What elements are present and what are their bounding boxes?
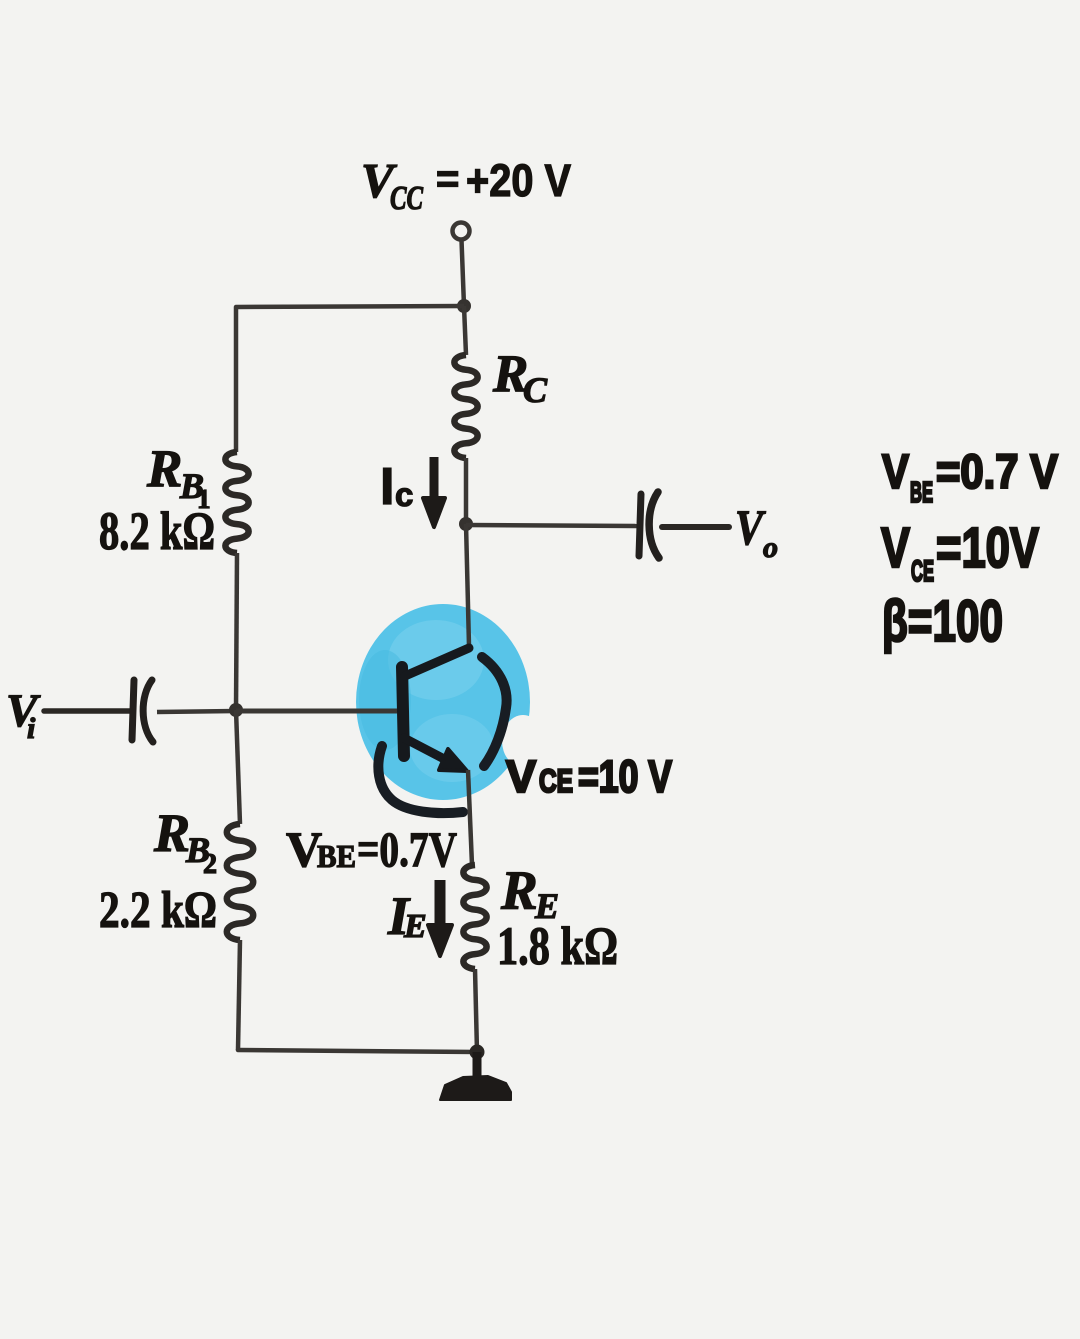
capacitor Co output coupling bbox=[639, 492, 659, 558]
annotation arc right of transistor bbox=[482, 657, 507, 766]
svg-text:=0.7V: =0.7V bbox=[357, 821, 457, 877]
svg-text:8.2 kΩ: 8.2 kΩ bbox=[99, 501, 215, 561]
label RC bbox=[492, 345, 548, 410]
wire base node to transistor base bbox=[236, 709, 397, 714]
svg-text:V: V bbox=[6, 685, 41, 737]
wire transistor emitter to RE bbox=[468, 770, 472, 865]
wire input capacitor to base node bbox=[157, 711, 236, 712]
label Ic bbox=[380, 458, 413, 516]
label RB1 bbox=[146, 440, 211, 514]
label VCE=10 V bbox=[506, 751, 672, 802]
svg-text:C: C bbox=[523, 370, 548, 410]
transistor Q1 highlight blob bbox=[356, 604, 544, 800]
wire RB2 to ground rail bbox=[238, 940, 240, 1050]
label VBE=0.7V bbox=[286, 821, 457, 877]
wire top node to RC bbox=[464, 306, 466, 355]
svg-text:V: V bbox=[881, 516, 910, 580]
ground bbox=[440, 1052, 511, 1100]
wire top rail to RB1 branch bbox=[236, 306, 464, 452]
svg-text:I: I bbox=[380, 458, 394, 516]
svg-text:+20 V: +20 V bbox=[466, 155, 571, 206]
svg-text:E: E bbox=[403, 908, 427, 945]
arrow IE current direction bbox=[435, 880, 446, 927]
wire collector node down to transistor bbox=[466, 524, 469, 646]
wire base node down to RB2 bbox=[236, 710, 240, 824]
label IE bbox=[387, 886, 427, 946]
svg-text:CE: CE bbox=[539, 763, 573, 799]
label Vi bbox=[6, 685, 41, 745]
given value VCE=10V bbox=[881, 516, 1039, 588]
resistor RE bbox=[463, 865, 486, 969]
wire ground rail bbox=[238, 1050, 477, 1052]
arrow Ic current direction bbox=[430, 457, 439, 500]
resistor RB2 bbox=[227, 824, 253, 940]
label Vo bbox=[735, 499, 778, 564]
svg-text:BE: BE bbox=[910, 477, 933, 509]
svg-text:V: V bbox=[506, 751, 536, 802]
svg-text:i: i bbox=[27, 712, 36, 745]
label Vcc = +20 V bbox=[361, 153, 571, 217]
label RB2 bbox=[153, 803, 217, 880]
svg-text:=10 V: =10 V bbox=[578, 751, 672, 802]
svg-text:β=100: β=100 bbox=[882, 589, 1003, 654]
node base junction bbox=[229, 703, 243, 717]
annotation arc bottom-left of transistor bbox=[378, 746, 463, 813]
svg-text:=0.7 V: =0.7 V bbox=[936, 446, 1058, 499]
wire collector node to output capacitor bbox=[466, 525, 637, 526]
capacitor Ci input coupling bbox=[132, 680, 153, 742]
given value VBE=0.7 V bbox=[882, 446, 1058, 509]
svg-text:BE: BE bbox=[317, 838, 356, 874]
svg-text:1.8 kΩ: 1.8 kΩ bbox=[497, 916, 618, 976]
svg-text:V: V bbox=[735, 499, 766, 555]
svg-text:CE: CE bbox=[911, 555, 934, 588]
svg-text:c: c bbox=[395, 476, 413, 513]
transistor Q1 bbox=[402, 648, 469, 771]
svg-text:R: R bbox=[153, 803, 190, 863]
wire Vi to input capacitor bbox=[44, 708, 130, 714]
svg-text:V: V bbox=[882, 446, 909, 499]
svg-text:CC: CC bbox=[390, 180, 423, 217]
terminal Vcc bbox=[453, 223, 470, 240]
resistor RB1 bbox=[225, 452, 248, 553]
svg-text:o: o bbox=[763, 531, 778, 564]
wire Vcc terminal to top node bbox=[462, 240, 465, 306]
svg-text:=10V: =10V bbox=[936, 516, 1039, 580]
wire RC to collector node bbox=[464, 458, 469, 524]
node top junction bbox=[457, 299, 471, 313]
resistor RC bbox=[454, 355, 477, 458]
node collector junction bbox=[459, 517, 473, 531]
svg-text:R: R bbox=[146, 440, 182, 498]
wire RE to ground node bbox=[475, 969, 477, 1052]
wire capacitor to Vo bbox=[662, 524, 729, 530]
wire RB1 to base node bbox=[236, 553, 237, 710]
svg-text:2: 2 bbox=[203, 849, 217, 880]
label RE bbox=[500, 860, 559, 926]
svg-text:R: R bbox=[500, 860, 538, 921]
node ground junction bbox=[470, 1045, 485, 1060]
svg-text:=: = bbox=[436, 157, 459, 201]
svg-text:2.2 kΩ: 2.2 kΩ bbox=[99, 882, 217, 939]
